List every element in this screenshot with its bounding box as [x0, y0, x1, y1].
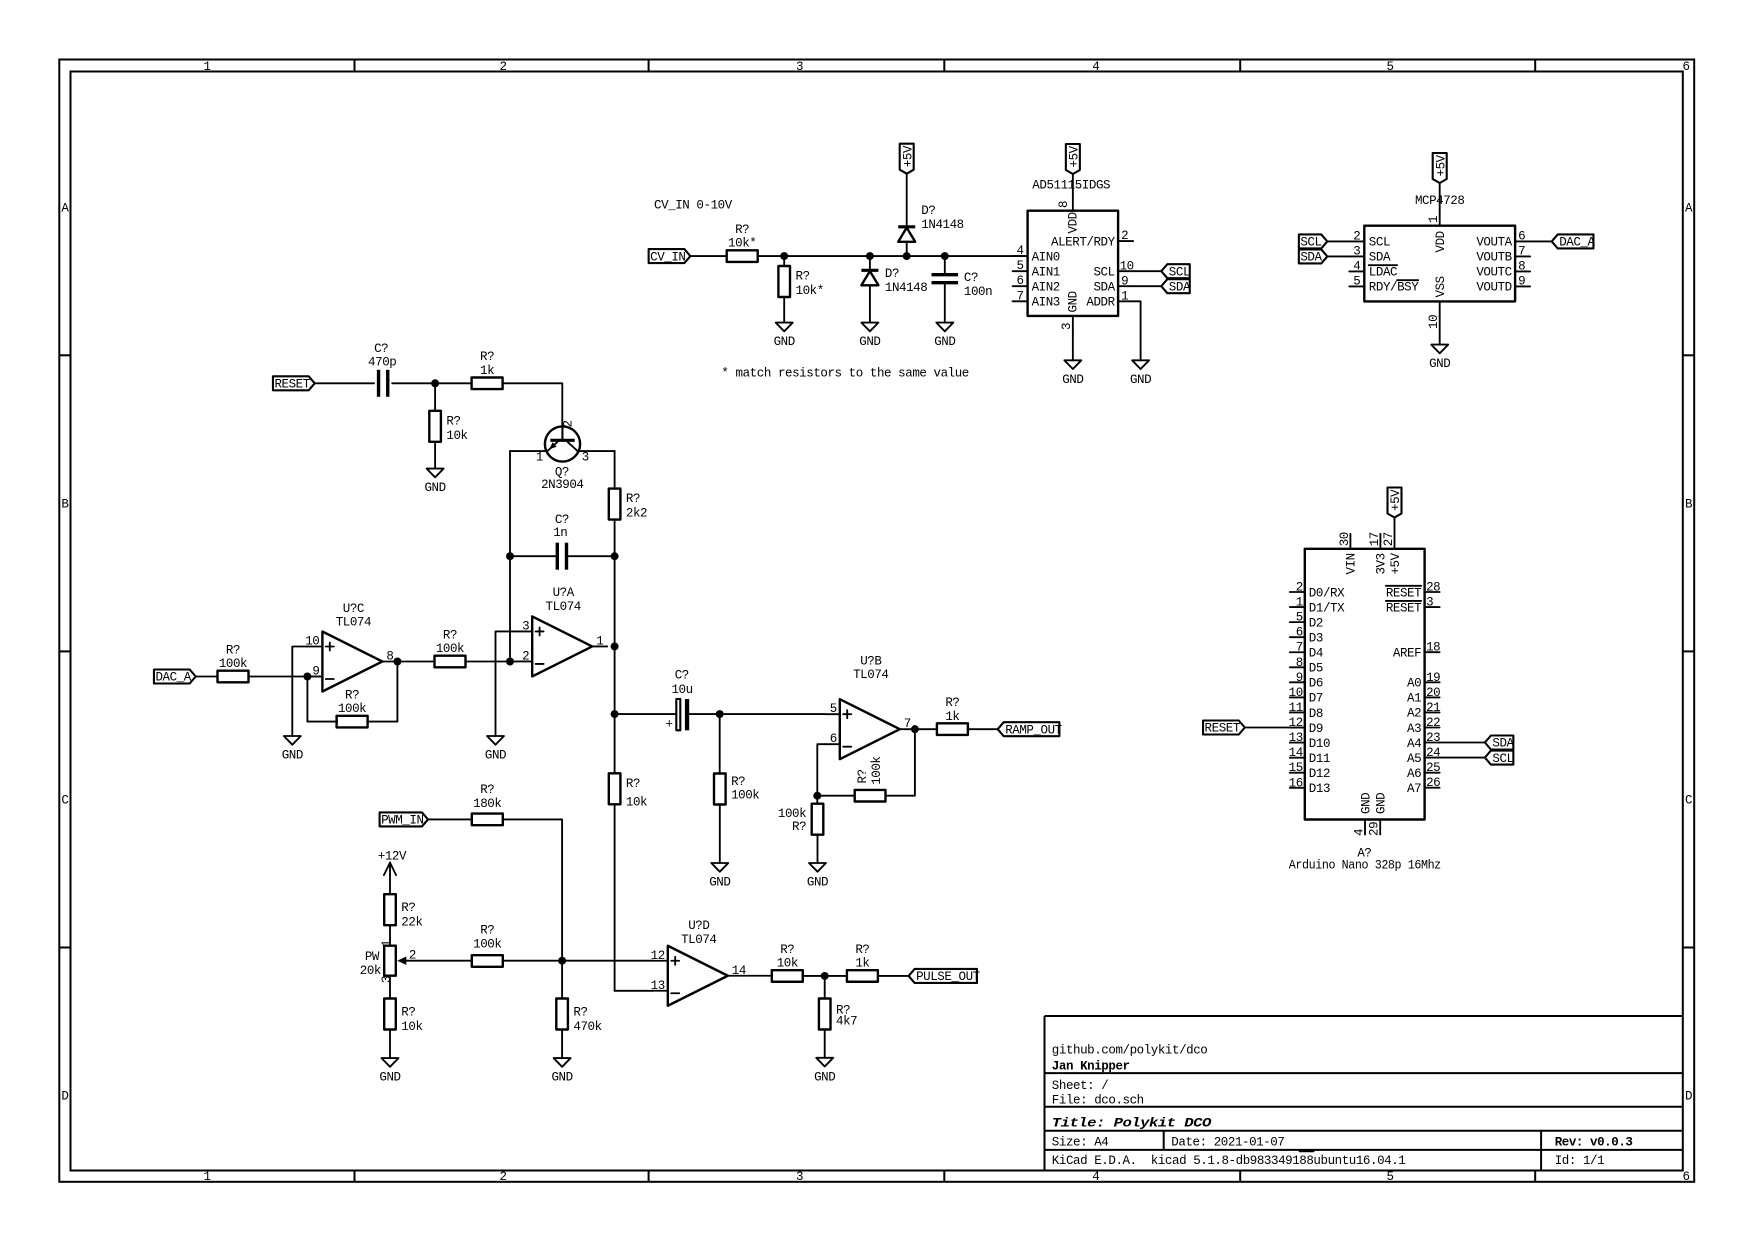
junction [716, 710, 724, 718]
svg-text:6: 6 [1296, 626, 1303, 640]
svg-text:R?: R? [945, 696, 959, 710]
wire [614, 804, 616, 991]
svg-text:GND: GND [379, 1071, 400, 1085]
power flag +5V [900, 144, 914, 174]
svg-text:180k: 180k [473, 797, 501, 811]
svg-text:A5: A5 [1407, 752, 1421, 766]
svg-text:PWM_IN: PWM_IN [381, 814, 423, 828]
svg-text:VOUTD: VOUTD [1476, 281, 1511, 295]
svg-text:10k: 10k [401, 1020, 422, 1034]
svg-text:C: C [1685, 794, 1692, 808]
svg-text:1: 1 [203, 1170, 210, 1184]
svg-text:R?: R? [480, 350, 494, 364]
svg-text:10k*: 10k* [796, 284, 824, 298]
svg-text:D?: D? [885, 267, 899, 281]
op-amp U?D TL074 comparator [668, 946, 728, 1006]
resistor R? 10k* series [727, 250, 758, 262]
svg-text:SDA: SDA [1169, 280, 1191, 294]
svg-text:2k2: 2k2 [626, 507, 647, 521]
svg-text:100k: 100k [731, 789, 759, 803]
svg-text:+5V: +5V [1434, 154, 1448, 176]
svg-text:VIN: VIN [1345, 553, 1359, 574]
svg-text:VDD: VDD [1434, 231, 1448, 252]
svg-text:2: 2 [409, 948, 416, 962]
svg-text:GND: GND [1359, 793, 1373, 814]
IC A? Arduino Nano 328p 16Mhz [1305, 549, 1425, 820]
resistor R? 1k out [847, 970, 878, 982]
svg-text:23: 23 [1426, 731, 1440, 745]
junction [611, 642, 619, 650]
svg-text:AREF: AREF [1393, 647, 1421, 661]
svg-text:7: 7 [904, 717, 911, 731]
svg-text:1: 1 [1427, 216, 1441, 223]
svg-text:D8: D8 [1309, 707, 1323, 721]
resistor R? 100k feedback [337, 716, 368, 728]
wire [196, 676, 218, 678]
svg-text:A: A [61, 202, 69, 216]
svg-text:GND: GND [551, 1071, 572, 1085]
svg-text:AD51115IDGS: AD51115IDGS [1032, 178, 1110, 192]
global label RESET [273, 376, 315, 390]
svg-text:C?: C? [964, 271, 978, 285]
svg-text:2N3904: 2N3904 [541, 478, 583, 492]
wire [817, 795, 854, 797]
svg-text:GND: GND [934, 335, 955, 349]
svg-text:10k*: 10k* [728, 237, 756, 251]
wire [503, 960, 653, 962]
svg-text:R?: R? [780, 943, 794, 957]
wire [509, 451, 511, 556]
resistor R? 10k pot lower [384, 999, 396, 1030]
svg-text:AIN0: AIN0 [1032, 250, 1060, 264]
svg-text:B: B [1685, 497, 1693, 511]
svg-text:File: dco.sch: File: dco.sch [1052, 1094, 1144, 1108]
svg-text:D3: D3 [1309, 631, 1323, 645]
svg-text:7: 7 [1518, 244, 1525, 258]
svg-text:6: 6 [1682, 1170, 1689, 1184]
svg-text:PW: PW [365, 950, 380, 964]
svg-text:100n: 100n [964, 285, 992, 299]
svg-text:Jan Knipper: Jan Knipper [1052, 1060, 1130, 1074]
svg-text:3: 3 [522, 619, 529, 633]
svg-text:VOUTC: VOUTC [1476, 266, 1511, 280]
wire [503, 819, 562, 960]
svg-text:VOUTB: VOUTB [1476, 251, 1512, 265]
svg-text:D2: D2 [1309, 616, 1323, 630]
wire [758, 255, 870, 257]
junction [911, 725, 919, 733]
svg-text:8: 8 [1296, 656, 1303, 670]
resistor R? 10k* shunt [778, 266, 790, 297]
wire [509, 556, 511, 661]
svg-text:Arduino Nano 328p 16Mhz: Arduino Nano 328p 16Mhz [1289, 859, 1441, 873]
svg-text:D: D [61, 1089, 68, 1103]
wire [389, 1030, 391, 1059]
junction [821, 972, 829, 980]
wire [816, 796, 818, 804]
svg-text:5: 5 [1017, 259, 1024, 273]
svg-text:SCL: SCL [1369, 236, 1390, 250]
svg-text:A3: A3 [1407, 722, 1421, 736]
svg-text:VSS: VSS [1434, 276, 1448, 297]
svg-text:C: C [61, 794, 68, 808]
global label SCL [1161, 264, 1189, 278]
svg-text:1: 1 [596, 634, 603, 648]
svg-text:D9: D9 [1309, 722, 1323, 736]
wire [503, 383, 563, 439]
junction [506, 552, 514, 560]
global label RESET [1203, 721, 1245, 735]
svg-text:RAMP_OUT: RAMP_OUT [1005, 723, 1062, 737]
svg-text:GND: GND [859, 335, 880, 349]
svg-text:ADDR: ADDR [1086, 296, 1115, 310]
svg-text:3: 3 [1426, 596, 1433, 610]
svg-text:30: 30 [1338, 532, 1352, 546]
svg-text:10u: 10u [671, 683, 692, 697]
wire [315, 382, 374, 384]
svg-text:9: 9 [1121, 275, 1128, 289]
capacitor C? 1n [556, 543, 559, 570]
svg-text:D6: D6 [1309, 677, 1323, 691]
svg-text:U?D: U?D [688, 919, 709, 933]
svg-text:TL074: TL074 [546, 600, 581, 614]
svg-text:1N4148: 1N4148 [921, 218, 963, 232]
svg-text:Title: Polykit DCO: Title: Polykit DCO [1052, 1116, 1212, 1130]
svg-text:D1/TX: D1/TX [1309, 601, 1345, 615]
svg-text:14: 14 [1289, 746, 1303, 760]
svg-text:4k7: 4k7 [836, 1015, 857, 1029]
svg-text:AIN3: AIN3 [1032, 296, 1060, 310]
svg-text:A7: A7 [1407, 782, 1421, 796]
global label SDA [1485, 736, 1513, 750]
svg-text:R?: R? [401, 1006, 415, 1020]
resistor R? 4k7 [819, 999, 831, 1030]
svg-text:* match resistors to the same: * match resistors to the same value [721, 367, 969, 381]
wire [615, 713, 677, 715]
svg-text:GND: GND [424, 481, 445, 495]
wire [614, 714, 616, 773]
svg-text:R?: R? [480, 783, 494, 797]
svg-text:R?: R? [792, 820, 806, 834]
ground [554, 1058, 571, 1067]
wire [944, 256, 946, 275]
svg-text:100k: 100k [473, 938, 501, 952]
svg-text:SCL: SCL [1300, 236, 1321, 250]
svg-text:1k: 1k [480, 364, 494, 378]
resistor R? 180k [472, 814, 503, 826]
global label PULSE_OUT [909, 969, 977, 983]
svg-text:6: 6 [1017, 274, 1024, 288]
capacitor C? 100n [932, 273, 959, 276]
transistor Q? 2N3904 [545, 426, 580, 461]
global label PWM_IN [380, 812, 428, 826]
svg-text:29: 29 [1368, 822, 1382, 836]
wire [1133, 270, 1161, 272]
svg-text:10: 10 [1289, 686, 1303, 700]
svg-text:R?: R? [226, 643, 240, 657]
ground [487, 736, 504, 745]
svg-text:3: 3 [380, 976, 394, 983]
junction [813, 792, 821, 800]
svg-text:7: 7 [1296, 641, 1303, 655]
svg-text:D: D [1685, 1089, 1692, 1103]
ground [936, 323, 953, 332]
power flag +5V [1388, 488, 1402, 518]
wire [428, 818, 472, 820]
svg-text:PULSE_OUT: PULSE_OUT [916, 970, 981, 984]
svg-text:2: 2 [499, 1170, 506, 1184]
resistor R? 1k base [472, 378, 503, 390]
svg-text:Sheet: /: Sheet: / [1052, 1079, 1109, 1093]
svg-text:3: 3 [1060, 323, 1074, 330]
ground [427, 469, 444, 478]
svg-text:LDAC: LDAC [1369, 266, 1397, 280]
svg-text:10k: 10k [446, 429, 467, 443]
wire [434, 442, 436, 469]
wire [392, 382, 471, 384]
svg-text:22: 22 [1426, 716, 1440, 730]
svg-text:25: 25 [1426, 761, 1440, 775]
svg-text:21: 21 [1426, 701, 1440, 715]
svg-text:AIN2: AIN2 [1032, 281, 1060, 295]
wire [878, 975, 909, 977]
svg-text:8: 8 [386, 650, 393, 664]
global label SCL [1485, 751, 1513, 765]
svg-text:12: 12 [1289, 716, 1303, 730]
svg-text:9: 9 [1296, 671, 1303, 685]
svg-text:1: 1 [1296, 596, 1303, 610]
wire [869, 285, 871, 322]
wire [578, 450, 615, 452]
svg-text:5: 5 [1386, 60, 1393, 74]
svg-text:D4: D4 [1309, 647, 1323, 661]
svg-text:26: 26 [1426, 776, 1440, 790]
svg-text:GND: GND [485, 749, 506, 763]
wire [510, 450, 548, 452]
wire [1327, 255, 1349, 257]
wire [783, 256, 785, 266]
svg-text:7: 7 [1017, 289, 1024, 303]
resistor R? 100k to gnd 2 [812, 804, 824, 835]
resistor R? 100k to gnd [714, 774, 726, 805]
svg-text:470k: 470k [573, 1020, 601, 1034]
svg-text:2: 2 [1296, 581, 1303, 595]
svg-text:GND: GND [1130, 373, 1151, 387]
svg-text:15: 15 [1289, 761, 1303, 775]
junction [611, 710, 619, 718]
resistor R? 10k pulldown [429, 411, 441, 442]
svg-text:RESET: RESET [1386, 586, 1422, 600]
svg-text:DAC_A: DAC_A [155, 671, 191, 685]
svg-text:GND: GND [814, 1070, 835, 1084]
wire [614, 646, 616, 714]
svg-text:28: 28 [1426, 581, 1440, 595]
wire [1072, 174, 1074, 196]
svg-text:R?: R? [480, 924, 494, 938]
svg-text:3: 3 [796, 60, 803, 74]
svg-text:17: 17 [1368, 532, 1382, 546]
svg-text:R?: R? [856, 769, 870, 783]
power flag +5V [1066, 144, 1080, 174]
svg-text:100k: 100k [870, 757, 884, 785]
svg-text:5: 5 [830, 702, 837, 716]
junction [866, 252, 874, 260]
resistor R? 22k [384, 894, 396, 925]
svg-text:GND: GND [1429, 357, 1450, 371]
resistor R? 100k wiper [472, 955, 503, 967]
ground [711, 863, 728, 872]
svg-text:GND: GND [1375, 793, 1389, 814]
global label DAC_A [1552, 234, 1594, 248]
ground [776, 323, 793, 332]
global label CV_IN [649, 249, 691, 263]
wire [945, 255, 1028, 257]
wire [367, 662, 397, 722]
wire [307, 677, 337, 722]
svg-text:4: 4 [1353, 829, 1367, 836]
svg-text:8: 8 [1057, 201, 1071, 208]
svg-text:1: 1 [380, 940, 394, 947]
wire [389, 925, 391, 946]
ground [1132, 360, 1149, 369]
svg-text:19: 19 [1426, 671, 1440, 685]
wire [1394, 518, 1396, 534]
svg-text:VDD: VDD [1067, 212, 1081, 233]
svg-text:github.com/polykit/dco: github.com/polykit/dco [1052, 1044, 1208, 1058]
svg-text:11: 11 [1289, 701, 1303, 715]
svg-text:1k: 1k [855, 957, 869, 971]
svg-text:1: 1 [536, 451, 543, 465]
svg-text:+5V: +5V [1389, 489, 1403, 511]
svg-text:R?: R? [573, 1006, 587, 1020]
svg-text:R?: R? [731, 775, 745, 789]
svg-text:KiCad E.D.A. kicad 5.1.8-db98: KiCad E.D.A. kicad 5.1.8-db983349188ubun… [1052, 1154, 1406, 1168]
wire [1072, 331, 1074, 360]
svg-text:2: 2 [522, 649, 529, 663]
svg-text:470p: 470p [368, 356, 396, 370]
wire [1245, 727, 1290, 729]
svg-text:R?: R? [855, 943, 869, 957]
wire [870, 255, 945, 257]
power flag +5V [1433, 153, 1447, 183]
wire [249, 676, 323, 678]
resistor R? 2k2 [609, 489, 621, 520]
svg-text:4: 4 [1017, 244, 1024, 258]
wire [466, 661, 518, 663]
wire [434, 383, 436, 411]
svg-text:1n: 1n [553, 526, 567, 540]
svg-text:2: 2 [1353, 229, 1360, 243]
svg-text:3: 3 [796, 1170, 803, 1184]
wire [1133, 301, 1141, 360]
svg-text:3: 3 [582, 451, 589, 465]
wire [690, 255, 726, 257]
junction [431, 379, 439, 387]
svg-text:GND: GND [1067, 291, 1081, 312]
svg-text:R?: R? [796, 270, 810, 284]
wire [689, 713, 825, 715]
junction [393, 658, 401, 666]
svg-text:A0: A0 [1407, 677, 1421, 691]
diode D? 1N4148 clamp to GND [861, 269, 878, 272]
svg-text:8: 8 [1518, 259, 1525, 273]
svg-text:CV_IN 0-10V: CV_IN 0-10V [654, 199, 733, 213]
ground [382, 1058, 399, 1067]
svg-text:R?: R? [401, 901, 415, 915]
svg-text:AIN1: AIN1 [1032, 265, 1060, 279]
svg-text:D10: D10 [1309, 737, 1330, 751]
wire [496, 631, 518, 736]
wire [824, 976, 826, 999]
svg-text:100k: 100k [778, 807, 806, 821]
svg-text:GND: GND [774, 335, 795, 349]
svg-text:U?C: U?C [343, 602, 364, 616]
global label SCL [1299, 234, 1327, 248]
svg-text:CV_IN: CV_IN [650, 250, 685, 264]
svg-text:3: 3 [1353, 244, 1360, 258]
svg-text:ALERT/RDY: ALERT/RDY [1051, 235, 1116, 249]
diode D? 1N4148 clamp to +5V [898, 225, 915, 228]
svg-text:+5V: +5V [1067, 145, 1081, 167]
svg-text:TL074: TL074 [336, 616, 371, 630]
svg-text:R?: R? [735, 223, 749, 237]
svg-text:24: 24 [1426, 746, 1440, 760]
wire [389, 976, 391, 999]
global label SDA [1299, 249, 1327, 263]
ground [861, 323, 878, 332]
svg-text:100k: 100k [338, 702, 366, 716]
svg-text:D11: D11 [1309, 752, 1330, 766]
svg-text:5: 5 [1386, 1170, 1393, 1184]
svg-text:C?: C? [675, 669, 689, 683]
svg-text:R?: R? [446, 414, 460, 428]
svg-text:SDA: SDA [1369, 251, 1391, 265]
svg-text:TL074: TL074 [681, 933, 716, 947]
svg-text:A6: A6 [1407, 767, 1421, 781]
svg-text:R?: R? [626, 492, 640, 506]
junction [558, 957, 566, 965]
wire [719, 714, 721, 773]
wire [824, 1030, 826, 1058]
junction [506, 658, 514, 666]
capacitor C? 470p [377, 370, 380, 397]
wire [915, 728, 937, 730]
svg-text:VOUTA: VOUTA [1476, 236, 1512, 250]
wire [802, 975, 847, 977]
svg-text:R?: R? [443, 628, 457, 642]
global label DAC_A [154, 670, 196, 684]
svg-text:9: 9 [312, 665, 319, 679]
svg-text:6: 6 [830, 732, 837, 746]
junction [611, 552, 619, 560]
wire [397, 661, 434, 663]
svg-text:13: 13 [651, 979, 665, 993]
svg-text:R?: R? [345, 688, 359, 702]
svg-text:GND: GND [709, 876, 730, 890]
svg-text:1k: 1k [945, 710, 959, 724]
svg-text:DAC_A: DAC_A [1559, 236, 1595, 250]
svg-text:A4: A4 [1407, 737, 1421, 751]
svg-text:GND: GND [1062, 373, 1083, 387]
svg-text:C?: C? [374, 342, 388, 356]
wire [817, 835, 819, 863]
svg-text:12: 12 [651, 949, 665, 963]
svg-text:4: 4 [1353, 259, 1360, 273]
svg-text:R?: R? [626, 777, 640, 791]
resistor R? 100k feedback (rotated labels) [855, 790, 886, 802]
svg-text:2: 2 [1121, 229, 1128, 243]
svg-text:22k: 22k [401, 916, 422, 930]
